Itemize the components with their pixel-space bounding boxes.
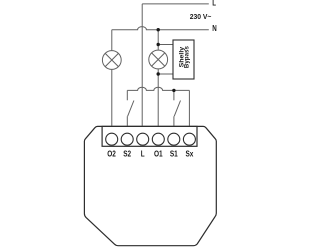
svg-text:L: L <box>212 0 216 8</box>
svg-text:230 V~: 230 V~ <box>190 12 212 21</box>
svg-text:L: L <box>141 148 145 158</box>
svg-text:N: N <box>212 24 217 33</box>
svg-text:O2: O2 <box>107 148 116 158</box>
svg-text:S1: S1 <box>170 148 178 158</box>
svg-text:Bypass: Bypass <box>184 46 191 68</box>
svg-text:S2: S2 <box>123 148 131 158</box>
svg-text:Sx: Sx <box>185 148 193 158</box>
svg-text:O1: O1 <box>154 148 163 158</box>
